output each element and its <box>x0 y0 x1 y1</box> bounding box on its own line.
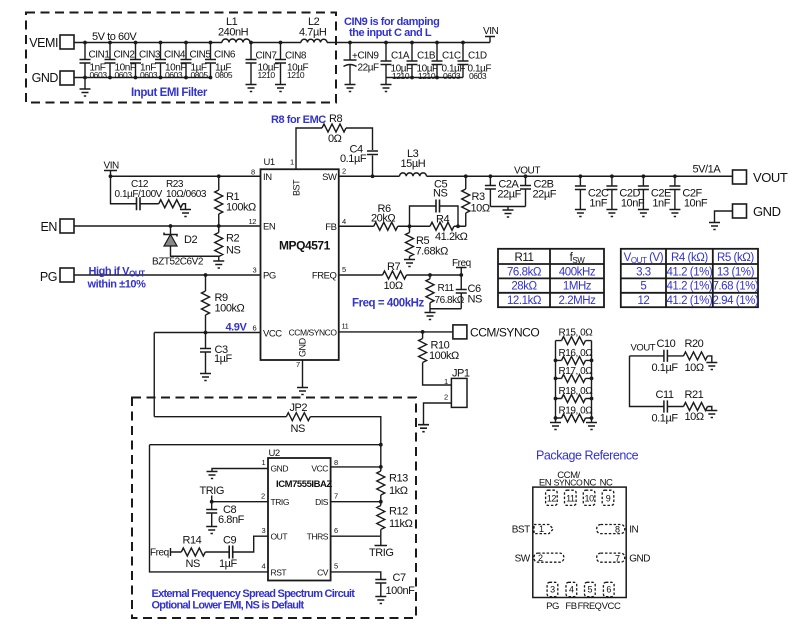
svg-text:6.8nF: 6.8nF <box>218 514 245 526</box>
svg-text:R15, 0Ω: R15, 0Ω <box>559 328 594 339</box>
svg-text:100nF: 100nF <box>386 585 416 597</box>
svg-text:28kΩ: 28kΩ <box>511 281 537 293</box>
svg-text:FREQ: FREQ <box>578 601 602 611</box>
svg-text:CIN6: CIN6 <box>214 50 236 61</box>
svg-text:R11: R11 <box>438 283 455 294</box>
svg-text:VCC: VCC <box>602 601 621 612</box>
svg-text:76.8kΩ: 76.8kΩ <box>435 295 465 306</box>
svg-text:1µF: 1µF <box>214 353 233 365</box>
svg-text:5V to 60V: 5V to 60V <box>92 31 137 43</box>
svg-text:VOUT: VOUT <box>753 170 788 185</box>
svg-text:11kΩ: 11kΩ <box>389 518 413 530</box>
svg-text:8: 8 <box>251 168 255 177</box>
svg-text:10Ω: 10Ω <box>471 203 490 215</box>
svg-text:12.1kΩ: 12.1kΩ <box>507 295 542 307</box>
svg-text:5V/1A: 5V/1A <box>693 164 722 176</box>
svg-text:41.2 (1%): 41.2 (1%) <box>666 295 712 307</box>
svg-text:R17, 0Ω: R17, 0Ω <box>559 366 594 377</box>
svg-text:400kHz: 400kHz <box>559 266 596 278</box>
svg-text:Freq: Freq <box>150 548 169 559</box>
svg-text:6: 6 <box>253 324 257 333</box>
svg-text:12: 12 <box>547 494 557 504</box>
svg-text:NS: NS <box>226 245 240 257</box>
svg-text:13 (1%): 13 (1%) <box>717 266 755 278</box>
svg-text:41.2 (1%): 41.2 (1%) <box>666 281 712 293</box>
svg-text:R4 (kΩ): R4 (kΩ) <box>671 252 708 264</box>
svg-text:CIN7: CIN7 <box>256 51 278 62</box>
svg-text:NS: NS <box>468 294 482 306</box>
svg-text:1nF: 1nF <box>652 198 670 210</box>
svg-text:0.1µF: 0.1µF <box>652 362 679 374</box>
svg-text:R14: R14 <box>183 535 202 547</box>
svg-text:7.68kΩ: 7.68kΩ <box>416 246 449 258</box>
svg-text:12: 12 <box>249 217 257 226</box>
svg-text:3: 3 <box>262 526 266 535</box>
svg-text:10nF: 10nF <box>621 198 645 210</box>
svg-text:ICM7555IBAZ: ICM7555IBAZ <box>276 479 332 490</box>
svg-text:6: 6 <box>606 585 611 595</box>
svg-text:6: 6 <box>334 526 338 535</box>
svg-text:FB: FB <box>565 601 576 612</box>
svg-text:R2: R2 <box>226 233 239 245</box>
svg-text:2.2MHz: 2.2MHz <box>559 295 597 307</box>
svg-text:10: 10 <box>585 494 595 504</box>
svg-text:22µF: 22µF <box>358 63 380 74</box>
svg-text:1: 1 <box>444 377 448 386</box>
svg-text:4: 4 <box>262 562 266 571</box>
svg-text:4.7µH: 4.7µH <box>299 27 327 39</box>
svg-text:TRIG: TRIG <box>200 485 224 497</box>
svg-text:1: 1 <box>539 524 544 534</box>
svg-text:0805: 0805 <box>215 70 233 80</box>
svg-text:R8 for EMC: R8 for EMC <box>271 114 326 126</box>
svg-text:1210: 1210 <box>287 70 305 80</box>
svg-text:R19, 0Ω: R19, 0Ω <box>559 406 594 417</box>
svg-text:20kΩ: 20kΩ <box>371 213 395 225</box>
svg-text:High if VOUT: High if VOUT <box>89 266 146 279</box>
svg-text:within ±10%: within ±10% <box>87 279 147 291</box>
svg-text:0603: 0603 <box>443 71 461 81</box>
svg-text:IN: IN <box>629 525 638 536</box>
svg-text:C1A: C1A <box>391 51 410 62</box>
svg-text:4.9V: 4.9V <box>226 322 248 334</box>
svg-text:1µF: 1µF <box>219 558 238 570</box>
svg-text:MPQ4571: MPQ4571 <box>279 239 331 253</box>
svg-text:2: 2 <box>538 553 543 563</box>
svg-text:1210: 1210 <box>418 71 436 81</box>
svg-text:3: 3 <box>253 266 257 275</box>
svg-text:5: 5 <box>342 265 346 274</box>
svg-text:2: 2 <box>261 492 265 501</box>
svg-text:VCC: VCC <box>263 329 282 340</box>
svg-text:2: 2 <box>342 167 346 176</box>
svg-text:11: 11 <box>342 322 349 331</box>
svg-text:JP1: JP1 <box>452 368 470 380</box>
svg-text:Package Reference: Package Reference <box>536 449 639 463</box>
svg-text:7.68 (1%): 7.68 (1%) <box>712 281 758 293</box>
svg-text:4: 4 <box>569 585 574 595</box>
svg-text:5: 5 <box>588 585 593 595</box>
svg-text:0.1µF: 0.1µF <box>652 413 679 425</box>
svg-text:EN: EN <box>263 222 276 233</box>
svg-text:SYNCO: SYNCO <box>554 478 583 488</box>
svg-text:1210: 1210 <box>258 70 276 80</box>
svg-text:1: 1 <box>262 458 266 467</box>
svg-text:GND: GND <box>271 464 289 474</box>
svg-text:R8: R8 <box>329 113 342 125</box>
svg-text:10Ω: 10Ω <box>685 411 704 423</box>
svg-text:VIN: VIN <box>483 26 499 37</box>
svg-text:CCM/SYNCO: CCM/SYNCO <box>289 328 338 338</box>
svg-text:External Frequency Spread Spec: External Frequency Spread Spectrum Circu… <box>152 588 356 600</box>
svg-text:1nF: 1nF <box>589 198 607 210</box>
svg-text:SW: SW <box>515 554 531 565</box>
svg-text:NS: NS <box>433 188 447 200</box>
svg-text:9: 9 <box>606 494 611 504</box>
svg-text:VOUT (V): VOUT (V) <box>624 252 664 265</box>
svg-text:1MHz: 1MHz <box>563 281 592 293</box>
svg-text:5: 5 <box>334 562 338 571</box>
svg-text:D2: D2 <box>184 234 197 246</box>
svg-text:SW: SW <box>322 172 337 183</box>
svg-text:12: 12 <box>637 295 649 307</box>
svg-text:100kΩ: 100kΩ <box>215 303 245 315</box>
svg-text:76.8kΩ: 76.8kΩ <box>507 266 542 278</box>
svg-text:C1B: C1B <box>417 51 436 62</box>
svg-text:C7: C7 <box>393 572 406 584</box>
svg-text:R20: R20 <box>685 338 704 350</box>
svg-text:2.94 (1%): 2.94 (1%) <box>712 295 758 307</box>
svg-text:3.3: 3.3 <box>636 266 651 278</box>
svg-text:GND: GND <box>753 204 781 219</box>
svg-text:100kΩ: 100kΩ <box>429 350 459 362</box>
svg-text:RST: RST <box>271 568 287 578</box>
svg-text:CV: CV <box>317 568 329 578</box>
svg-text:0.1µF/100V: 0.1µF/100V <box>115 189 163 200</box>
svg-text:8: 8 <box>615 525 620 535</box>
svg-text:IN: IN <box>263 172 272 183</box>
svg-text:5: 5 <box>640 281 646 293</box>
svg-text:R4: R4 <box>436 214 449 226</box>
svg-text:THRS: THRS <box>307 532 329 542</box>
svg-text:0805: 0805 <box>191 70 209 80</box>
svg-text:3: 3 <box>550 585 555 595</box>
svg-text:R18, 0Ω: R18, 0Ω <box>559 386 594 397</box>
svg-text:JP2: JP2 <box>290 402 308 414</box>
svg-text:TRIG: TRIG <box>271 497 290 507</box>
svg-text:7: 7 <box>334 492 338 501</box>
svg-text:4: 4 <box>342 217 346 226</box>
svg-text:CIN9: CIN9 <box>358 51 380 62</box>
svg-text:10nF: 10nF <box>684 198 708 210</box>
svg-text:the input C and L: the input C and L <box>349 27 432 39</box>
svg-text:0603: 0603 <box>90 70 108 80</box>
svg-text:VCC: VCC <box>311 464 328 474</box>
svg-text:10Ω/0603: 10Ω/0603 <box>166 189 207 200</box>
svg-text:1kΩ: 1kΩ <box>389 485 408 497</box>
svg-text:15µH: 15µH <box>401 158 426 170</box>
svg-text:22µF: 22µF <box>497 189 521 201</box>
svg-text:8: 8 <box>334 458 338 467</box>
svg-text:VEMI: VEMI <box>29 36 58 50</box>
svg-text:R16, 0Ω: R16, 0Ω <box>559 348 594 359</box>
svg-text:41.2 (1%): 41.2 (1%) <box>666 266 712 278</box>
svg-text:PG: PG <box>40 270 57 284</box>
svg-text:240nH: 240nH <box>218 27 249 39</box>
svg-text:7: 7 <box>615 554 620 564</box>
svg-text:R21: R21 <box>685 389 704 401</box>
svg-text:CIN8: CIN8 <box>285 51 307 62</box>
svg-text:U1: U1 <box>264 157 275 168</box>
svg-text:0Ω: 0Ω <box>328 133 342 145</box>
svg-text:PG: PG <box>546 601 559 612</box>
svg-text:DIS: DIS <box>315 497 329 507</box>
svg-text:R12: R12 <box>389 506 408 518</box>
svg-text:0603: 0603 <box>165 70 183 80</box>
svg-text:7: 7 <box>296 360 300 369</box>
svg-text:41.2kΩ: 41.2kΩ <box>435 231 468 243</box>
svg-text:10Ω: 10Ω <box>685 362 704 374</box>
svg-text:0603: 0603 <box>469 71 487 81</box>
svg-text:BZT52C6V2: BZT52C6V2 <box>152 257 204 268</box>
svg-text:PG: PG <box>263 271 276 282</box>
svg-text:C10: C10 <box>657 338 676 350</box>
svg-text:Optional Lower EMI, NS is Defa: Optional Lower EMI, NS is Default <box>152 600 305 612</box>
svg-text:R5 (kΩ): R5 (kΩ) <box>717 252 754 264</box>
svg-text:R13: R13 <box>389 473 408 485</box>
svg-text:C1C: C1C <box>442 51 461 62</box>
svg-text:NS: NS <box>291 423 305 435</box>
svg-text:22µF: 22µF <box>533 189 557 201</box>
svg-text:100kΩ: 100kΩ <box>226 202 256 214</box>
svg-text:1: 1 <box>290 158 294 167</box>
svg-text:0603: 0603 <box>115 70 133 80</box>
svg-text:CCM/SYNCO: CCM/SYNCO <box>470 326 539 340</box>
svg-text:GND: GND <box>32 71 59 85</box>
svg-text:GND: GND <box>298 337 308 357</box>
svg-text:Freq = 400kHz: Freq = 400kHz <box>352 298 425 310</box>
svg-text:R3: R3 <box>472 191 485 203</box>
svg-text:OUT: OUT <box>271 532 288 542</box>
svg-text:BST: BST <box>292 179 302 196</box>
svg-text:VOUT: VOUT <box>631 343 656 354</box>
svg-text:C1D: C1D <box>468 51 487 62</box>
svg-text:TRIG: TRIG <box>369 547 393 559</box>
svg-text:BST: BST <box>512 525 530 536</box>
svg-text:Input EMI Filter: Input EMI Filter <box>131 87 208 99</box>
svg-text:0.1µF: 0.1µF <box>340 153 367 165</box>
svg-text:1210: 1210 <box>392 71 410 81</box>
svg-text:FREQ: FREQ <box>312 271 337 282</box>
svg-text:2: 2 <box>444 393 448 402</box>
svg-text:11: 11 <box>566 494 575 504</box>
svg-text:0603: 0603 <box>140 70 158 80</box>
svg-text:C11: C11 <box>656 389 674 401</box>
svg-text:EN: EN <box>41 220 58 234</box>
svg-text:NS: NS <box>186 558 200 570</box>
svg-text:R11: R11 <box>515 252 534 264</box>
svg-text:VOUT: VOUT <box>514 166 540 177</box>
svg-text:fSW: fSW <box>570 252 586 265</box>
svg-text:R7: R7 <box>387 261 400 273</box>
svg-text:C9: C9 <box>223 535 236 547</box>
svg-text:GND: GND <box>629 554 650 565</box>
svg-text:FB: FB <box>325 222 336 233</box>
svg-text:U2: U2 <box>269 448 280 459</box>
svg-text:10Ω: 10Ω <box>384 280 403 292</box>
